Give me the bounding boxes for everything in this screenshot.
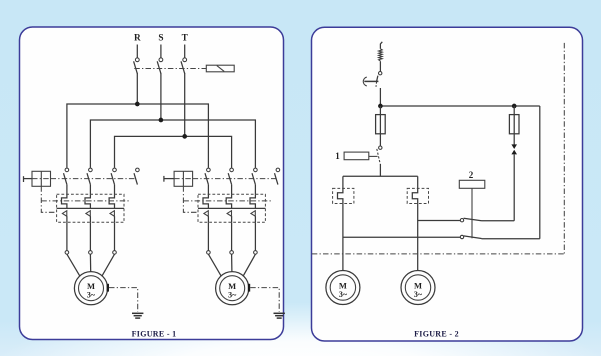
svg-text:2: 2 (469, 170, 474, 180)
contact 1 pivot (379, 146, 382, 149)
overload F1 trip arrow 3 lead (114, 216, 116, 222)
overload F2 trip arrow 2 (227, 211, 231, 217)
breaker Q1 release diagonal (217, 66, 224, 72)
contactor K1 coil center line (40, 171, 42, 186)
motor M2 inner circle (220, 276, 245, 301)
svg-text:3~: 3~ (87, 291, 96, 300)
contactor K2 pole 3 circle (254, 168, 258, 172)
selector contact b pivot (460, 235, 463, 238)
overload F2 trip arrow 2 lead (231, 216, 233, 222)
contactor K1 coil crossbar (32, 178, 51, 180)
contactor K2 linkage (193, 178, 277, 180)
svg-text:T: T (182, 34, 189, 44)
contactor K1 pole 1 blade (64, 173, 67, 184)
contactor K1 aux contact blade (134, 173, 137, 184)
wire R supply stub (136, 45, 138, 58)
wire supply stub (380, 42, 382, 49)
wire right branch to motor4 (417, 204, 419, 271)
ground G1 bar 2 (134, 315, 142, 317)
fuse F3 link line (379, 115, 381, 134)
overload F1 heater 2 (85, 194, 90, 208)
wire contact a to fuse branch (482, 220, 515, 222)
svg-text:3~: 3~ (339, 290, 348, 299)
contactor K2 coil center line (182, 171, 184, 186)
wire terminal1 to motor1 (67, 254, 80, 276)
contactor K2 aux contact circle (276, 168, 280, 172)
wire terminal2 to motor1 (89, 254, 91, 272)
overload F2 trip arrow 1 (204, 211, 208, 217)
svg-text:1: 1 (335, 151, 340, 161)
wire bus S (90, 120, 255, 168)
disconnect operator arc (363, 77, 367, 86)
svg-text:3~: 3~ (228, 291, 237, 300)
motor M1 earth terminal tick (107, 284, 109, 292)
disconnect operator bar (364, 80, 378, 82)
svg-text:FIGURE - 1: FIGURE - 1 (132, 329, 177, 338)
breaker Q1 linkage (134, 68, 206, 70)
ground G2 bar 2 (275, 315, 283, 317)
ground G1 bar 1 (132, 312, 143, 314)
node B junction dot (159, 118, 164, 123)
svg-text:M: M (339, 280, 347, 290)
wire left branch to motor3 (342, 204, 344, 271)
breaker Q1 pole T blade (181, 61, 185, 73)
contactor K1 aux contact circle (136, 168, 140, 172)
contactor K1 pole 1 circle (65, 168, 69, 172)
contactor K1 pole 2 blade (87, 173, 90, 184)
overload F1 dashed box (57, 194, 124, 222)
wire S supply stub (160, 45, 162, 58)
wire left branch drop (342, 176, 344, 188)
motor M3 inner circle (330, 275, 355, 300)
fuse F6 link line (513, 115, 515, 134)
overload F1 trip arrow 1 (62, 211, 66, 217)
panel FIGURE-1 frame (20, 27, 284, 340)
contactor K2 pole 2 lower lead (231, 185, 233, 195)
ground G2 bar 3 (277, 317, 282, 319)
breaker Q1 pole T pivot (183, 58, 187, 62)
selector contact b blade (464, 236, 482, 239)
wire terminal3 to motor1 (102, 254, 115, 276)
wire fuse F6 to connector (513, 134, 515, 145)
overload F4 dashed box (333, 188, 354, 203)
breaker Q1 pole R blade (134, 61, 138, 73)
overload F2 trip arrow 3 (251, 211, 255, 217)
motor M1 inner circle (79, 276, 104, 301)
svg-text:S: S (158, 34, 163, 44)
contactor K1 pole 3 circle (113, 168, 117, 172)
contactor K2 pole 1 blade (205, 173, 208, 184)
wire T supply stub (184, 45, 186, 58)
motor M2 earth wire (250, 288, 279, 312)
breaker Q1 release box (206, 65, 234, 72)
svg-text:3~: 3~ (414, 290, 423, 299)
wire motor1 lead 3 (114, 222, 116, 250)
selector box 2 link rod (471, 188, 473, 238)
motor1 terminal 1 (65, 251, 69, 255)
wire motor2 lead 3 (254, 222, 256, 250)
contactor K2 coil crossbar (174, 178, 193, 180)
motor M4 inner circle (405, 275, 430, 300)
overload F1 heater linkage (41, 200, 130, 202)
contactor K2 coil drop link (183, 186, 198, 212)
motor M1 earth wire (109, 288, 138, 312)
wire switch to node D (379, 88, 381, 106)
contactor K2 pole 3 blade (252, 173, 255, 184)
motor M4 outer circle (401, 271, 435, 305)
connector plug triangle (511, 144, 517, 149)
wire S to node B (160, 73, 162, 120)
wire motor1 lead 2 (89, 222, 91, 250)
wire right riser (539, 106, 541, 239)
breaker Q1 pole S pivot (159, 58, 163, 62)
overload F1 trip arrow 2 (86, 211, 90, 217)
wire right branch to selector contact a (418, 220, 461, 222)
motor1 terminal 3 (113, 251, 117, 255)
wire node D to fuse F3 (379, 106, 381, 115)
disconnect switch blade (377, 76, 378, 82)
motor M2 outer circle (216, 272, 249, 305)
overload F1 heater 3 (109, 194, 114, 208)
contactor K1 linkage (51, 178, 137, 180)
wire terminal1 to motor2 (208, 254, 221, 276)
selector contact a blade (464, 218, 482, 220)
wire contact1 to tee (379, 164, 381, 176)
wire fuse F3 to contact (379, 134, 381, 146)
overload F5 dashed box (407, 188, 428, 203)
contactor K1 coil drop link (41, 186, 56, 212)
contactor K2 aux contact blade (275, 173, 278, 184)
svg-text:R: R (134, 34, 141, 44)
contactor K1 pole 2 circle (89, 168, 93, 172)
node D junction dot (378, 104, 383, 109)
overload F1 heater 1 (62, 194, 67, 208)
motor2 terminal 1 (207, 251, 211, 255)
contactor K1 pole 3 lower lead (114, 185, 116, 195)
fuse striker coil (379, 49, 383, 61)
wire motor2 lead 1 (207, 222, 209, 250)
contactor K2 pole 1 lower lead (207, 185, 209, 195)
motor2 terminal 3 (254, 251, 258, 255)
connector socket triangle (511, 150, 517, 155)
wire top bus (380, 105, 539, 107)
node C junction dot (182, 134, 187, 139)
motor2 terminal 2 (230, 251, 234, 255)
contactor K1 coil lead (24, 178, 33, 180)
overload F2 trip arrow 3 lead (254, 216, 256, 222)
overload F1 trip arrow 2 lead (89, 216, 91, 222)
overload F2 heater 2 (226, 194, 231, 208)
wire motor1 lead 1 (66, 222, 68, 250)
contactor K1 pole 1 lower lead (66, 185, 68, 195)
enclosure boundary vertical (563, 43, 565, 254)
contactor K2 pole 2 circle (230, 168, 234, 172)
enclosure boundary horizontal (312, 253, 565, 255)
overload F5 heater (412, 188, 417, 203)
wire terminal3 to motor2 (243, 254, 255, 276)
svg-text:M: M (228, 281, 236, 291)
overload F2 heater 3 (250, 194, 255, 208)
contactor K2 pole 3 lower lead (254, 185, 256, 195)
overload F2 heater linkage (183, 200, 271, 202)
wire branch bus (343, 175, 418, 177)
contactor K2 coil lead (164, 178, 174, 180)
disconnect switch pivot (379, 72, 382, 75)
fuse F6 body (509, 115, 519, 134)
contactor K1 coil lead tick (23, 176, 25, 182)
ground G1 bar 3 (135, 317, 140, 319)
actuator box 1 link (369, 155, 378, 157)
node A junction dot (135, 102, 140, 107)
actuator box 1 (344, 152, 369, 160)
wire connector to contact a (513, 154, 515, 220)
wire terminal2 to motor2 (231, 254, 233, 272)
contact 1 blade dashed (377, 149, 380, 164)
wire coil to switch (379, 61, 381, 71)
overload F2 dashed box (198, 194, 265, 222)
wire bus T (115, 136, 232, 168)
contactor K2 pole 1 circle (207, 168, 211, 172)
wire node E to fuse F6 (513, 106, 515, 115)
selector box 2 (459, 180, 485, 188)
breaker Q1 pole R pivot (135, 58, 139, 62)
svg-text:M: M (414, 280, 422, 290)
wire R to node A (136, 73, 138, 104)
wire contact b to right riser (482, 238, 540, 240)
overload F1 trip arrow 3 (110, 211, 114, 217)
motor M3 outer circle (326, 271, 360, 305)
overload F2 trip arrow 1 lead (207, 216, 209, 222)
wire left branch to selector contact b (343, 236, 460, 238)
wire bus R (67, 104, 209, 168)
svg-text:M: M (87, 281, 95, 291)
contactor K1 pole 3 blade (111, 173, 114, 184)
overload F1 trip arrow 1 lead (66, 216, 68, 222)
contactor K2 coil lead tick (163, 176, 165, 182)
contactor K2 pole 2 blade (228, 173, 231, 184)
svg-text:FIGURE - 2: FIGURE - 2 (414, 329, 459, 338)
fuse F3 body (376, 115, 386, 134)
contactor K1 pole 2 lower lead (89, 185, 91, 195)
motor M2 earth terminal tick (248, 284, 250, 292)
overload F1 trip bar (57, 207, 124, 209)
node E junction dot (512, 104, 517, 109)
wire motor2 lead 2 (231, 222, 233, 250)
motor M1 outer circle (74, 272, 107, 305)
motor1 terminal 2 (89, 251, 93, 255)
contactor K2 coil box (174, 171, 193, 186)
ground G2 bar 1 (274, 312, 285, 314)
panel FIGURE-2 frame (312, 27, 583, 341)
wire T to node C (184, 73, 186, 136)
overload F2 heater 1 (203, 194, 208, 208)
overload F2 trip bar (198, 207, 265, 209)
contactor K1 coil box (32, 171, 51, 186)
selector contact a pivot (460, 219, 463, 222)
breaker Q1 pole S blade (157, 61, 161, 73)
wire right branch drop (417, 176, 419, 188)
overload F4 heater (338, 188, 343, 203)
